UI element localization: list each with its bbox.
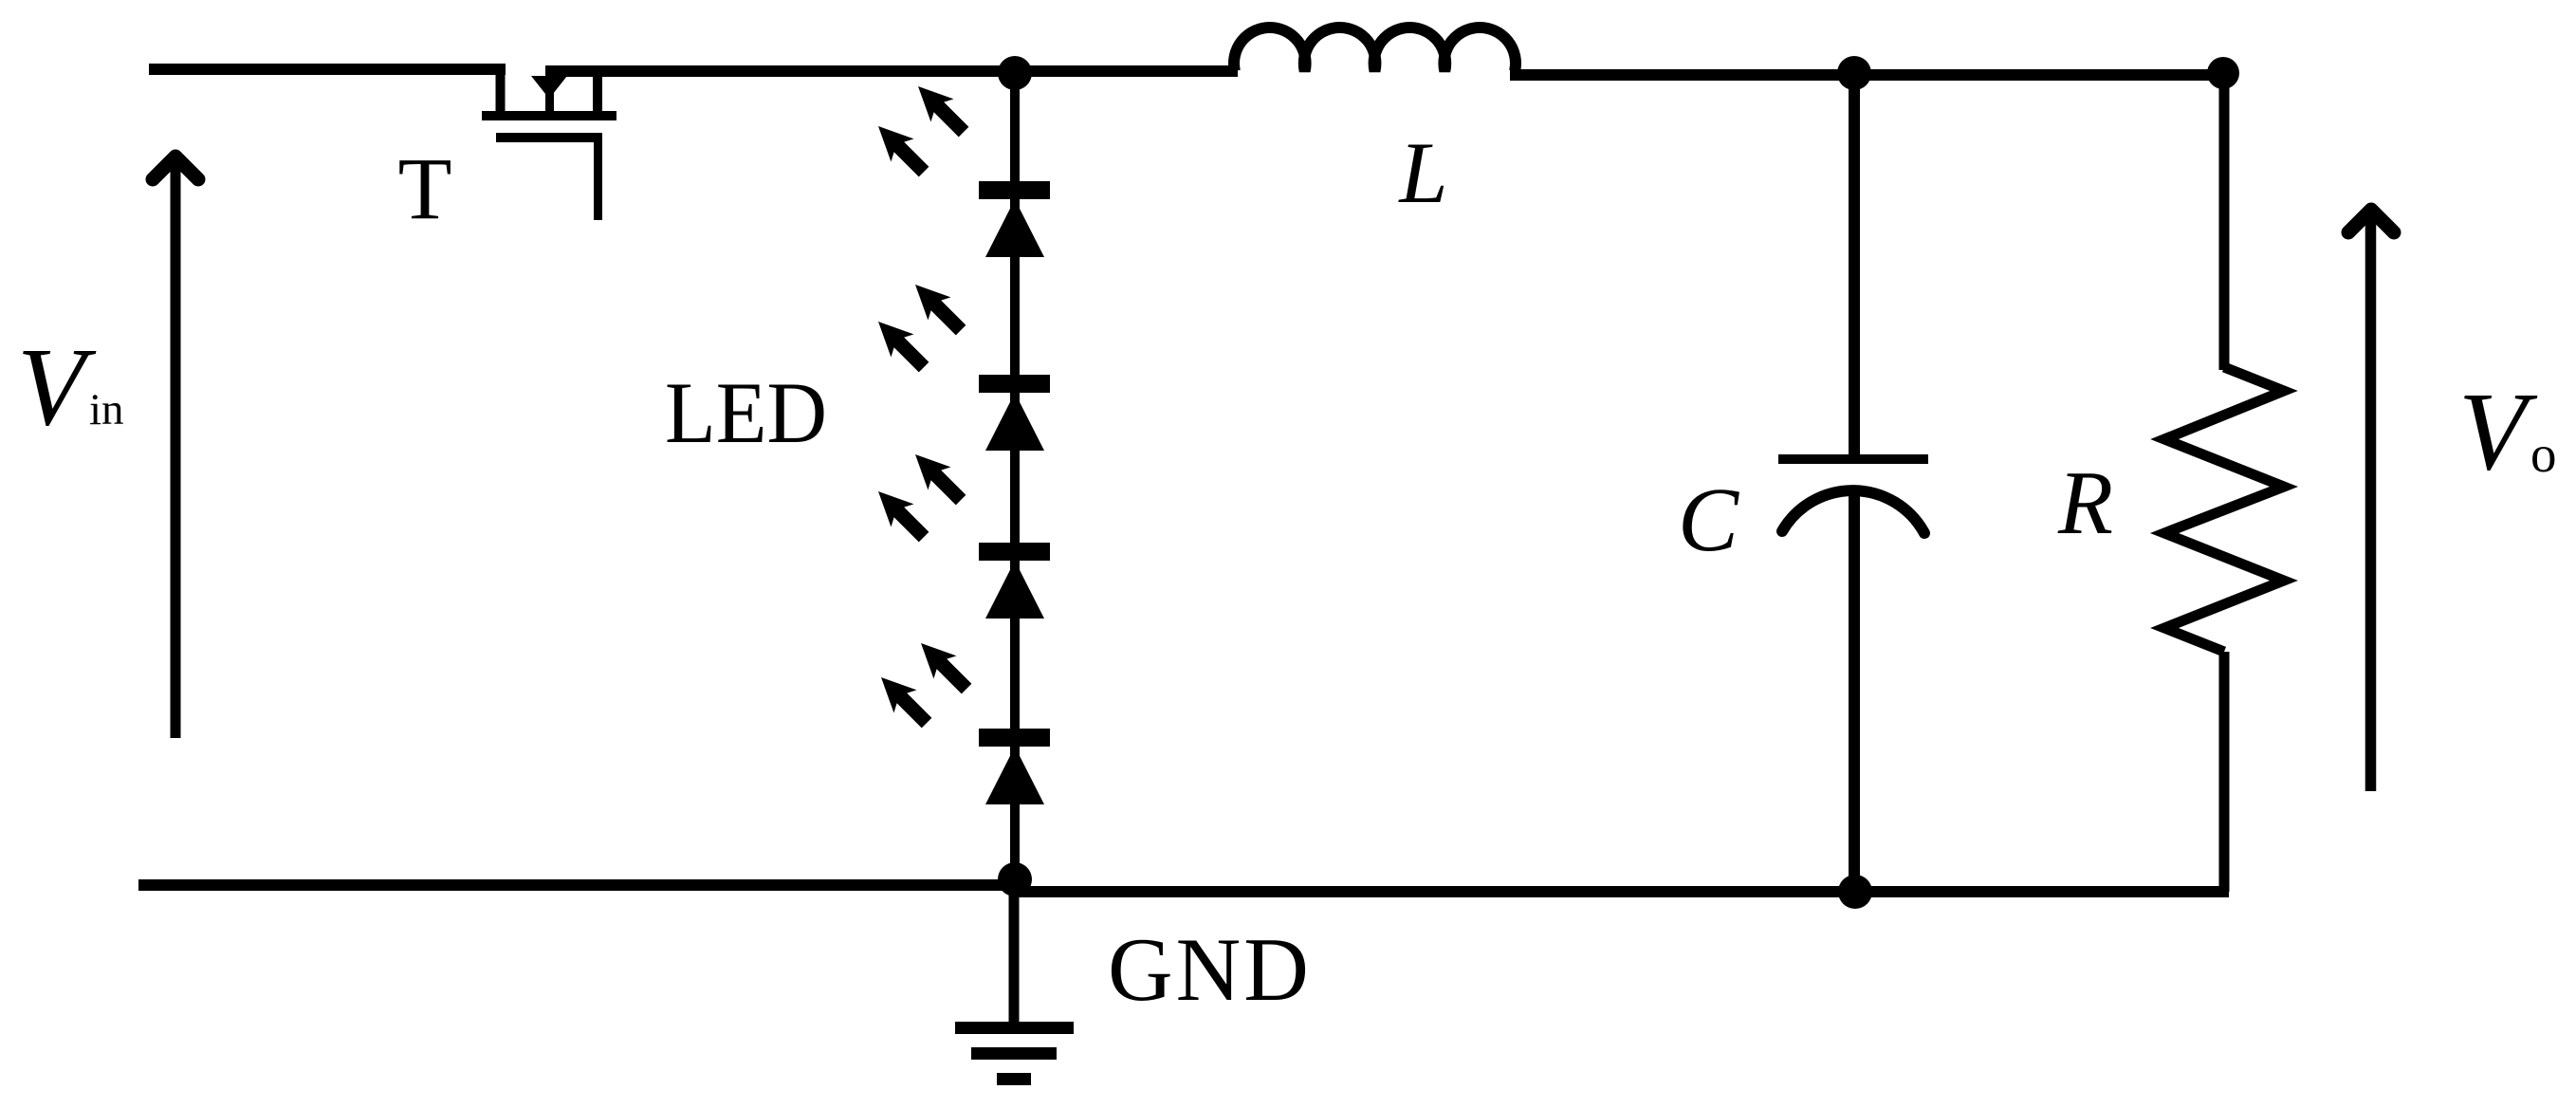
transistor T <box>482 66 616 220</box>
resistor R <box>2164 71 2284 892</box>
node: ground junction <box>998 862 1032 896</box>
svg-text:V: V <box>17 324 97 449</box>
svg-text:GND: GND <box>1108 919 1312 1020</box>
wire: top rail left segment <box>149 64 506 75</box>
node: capacitor top junction <box>1837 56 1871 90</box>
node: capacitor bottom junction <box>1838 875 1872 909</box>
wire: bottom rail <box>138 879 1020 891</box>
svg-text:T: T <box>398 140 452 238</box>
LED string (4 LEDs) <box>979 73 1050 888</box>
svg-text:LED: LED <box>665 364 827 461</box>
V_in arrow <box>153 157 198 738</box>
node: resistor top junction <box>2207 57 2239 89</box>
LED emission arrows <box>867 75 978 734</box>
ground symbol <box>955 888 1074 1085</box>
svg-text:V: V <box>2458 369 2538 493</box>
wire: top rail right segment <box>545 65 1238 77</box>
svg-text:R: R <box>2057 452 2113 553</box>
svg-text:o: o <box>2530 425 2557 483</box>
svg-text:in: in <box>89 385 124 434</box>
node: LED anode junction (top) <box>998 56 1032 90</box>
V_o arrow <box>2348 210 2394 791</box>
inductor L <box>1234 28 1516 71</box>
capacitor C <box>1778 69 1928 892</box>
svg-text:C: C <box>1678 469 1739 570</box>
svg-text:L: L <box>1397 124 1447 221</box>
